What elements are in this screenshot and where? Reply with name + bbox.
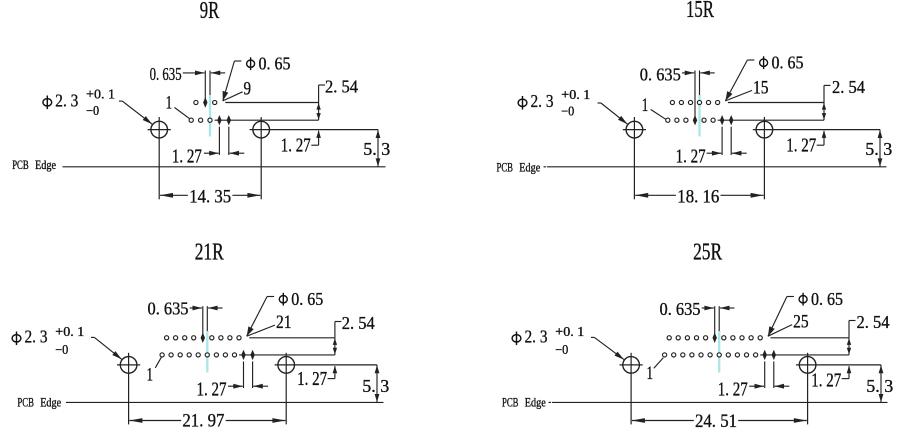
- top pin row line 21R: [249, 337, 335, 339]
- svg-text:−0: −0: [86, 103, 99, 118]
- svg-text:+0. 1: +0. 1: [561, 87, 590, 102]
- svg-text:1. 27: 1. 27: [676, 146, 706, 167]
- svg-text:3: 3: [380, 376, 389, 396]
- svg-text:9R: 9R: [200, 0, 220, 24]
- svg-text:15: 15: [753, 77, 769, 98]
- svg-text:1. 27: 1. 27: [281, 136, 311, 157]
- svg-text:2. 54: 2. 54: [325, 77, 358, 97]
- svg-text:0. 635: 0. 635: [148, 299, 189, 319]
- centerline (cyan) 25R: [718, 331, 720, 373]
- svg-text:2. 3: 2. 3: [55, 91, 78, 111]
- svg-text:+0. 1: +0. 1: [555, 324, 584, 339]
- svg-text:PCB: PCB: [12, 158, 29, 172]
- pin hole diamonds bottom row 25R: [763, 350, 767, 360]
- svg-text:−0: −0: [55, 342, 68, 357]
- svg-text:1. 27: 1. 27: [297, 369, 327, 390]
- svg-text:5.: 5.: [362, 376, 376, 396]
- label phi2.3 +0.1/-0 with leader 9R: [43, 99, 52, 106]
- mounting hole left 21R: [120, 357, 137, 374]
- mounting hole right 9R: [253, 121, 270, 138]
- svg-text:21: 21: [276, 312, 292, 333]
- pin holes bottom row 9R: [189, 118, 193, 122]
- dimension 5.3 9R: [377, 130, 379, 167]
- svg-text:25: 25: [793, 312, 809, 333]
- mounting hole left 9R: [151, 121, 168, 138]
- svg-text:2. 54: 2. 54: [857, 312, 890, 332]
- svg-text:2. 3: 2. 3: [25, 327, 48, 347]
- svg-text:−0: −0: [555, 342, 568, 357]
- svg-text:21. 97: 21. 97: [182, 411, 224, 432]
- pin holes top row 25R: [667, 336, 671, 340]
- pin hole diamonds bottom row 21R: [241, 350, 245, 360]
- label phi0.65 with leader 25R: [799, 296, 807, 303]
- bottom pin row line 15R: [718, 119, 824, 121]
- label phi2.3 +0.1/-0 with leader 21R: [12, 335, 21, 342]
- svg-text:3: 3: [884, 376, 893, 396]
- svg-text:5.: 5.: [866, 376, 880, 396]
- svg-text:−0: −0: [561, 104, 574, 119]
- mounting hole left 25R: [623, 357, 640, 374]
- svg-text:25R: 25R: [693, 239, 722, 265]
- mounting hole right 25R: [799, 357, 816, 374]
- svg-text:2. 54: 2. 54: [342, 313, 375, 333]
- svg-text:PCB: PCB: [17, 396, 34, 410]
- top pin row line 9R: [225, 102, 318, 104]
- centerline (cyan) 21R: [206, 331, 208, 373]
- svg-text:2. 3: 2. 3: [531, 91, 554, 111]
- svg-text:0. 635: 0. 635: [660, 299, 701, 319]
- pin holes top row 21R: [165, 336, 169, 340]
- dimension 5.3 25R: [880, 365, 882, 403]
- svg-text:5.: 5.: [363, 139, 377, 159]
- pin hole diamonds bottom row 9R: [217, 115, 221, 125]
- dimension 5.3 21R: [376, 365, 378, 403]
- svg-text:2. 3: 2. 3: [525, 327, 548, 347]
- pin hole diamonds bottom row 15R: [720, 115, 724, 125]
- pin holes top row 15R: [670, 100, 674, 104]
- label phi0.65 with leader 15R: [760, 59, 768, 66]
- bottom pin row line 25R: [760, 354, 849, 356]
- bottom pin row line 21R: [239, 354, 335, 356]
- dimension 5.3 15R: [879, 130, 881, 167]
- top pin row line 15R: [728, 102, 824, 104]
- svg-text:1. 27: 1. 27: [172, 146, 202, 167]
- svg-text:1: 1: [147, 364, 154, 385]
- top pin row line 25R: [771, 337, 850, 339]
- svg-text:1. 27: 1. 27: [811, 371, 841, 392]
- pin holes bottom row 21R: [160, 353, 164, 357]
- svg-text:Edge: Edge: [40, 396, 61, 410]
- centerline (cyan) 15R: [698, 95, 700, 137]
- label phi0.65 with leader 9R: [247, 60, 255, 67]
- svg-text:14. 35: 14. 35: [189, 187, 231, 208]
- svg-text:Edge: Edge: [519, 161, 540, 175]
- svg-text:+0. 1: +0. 1: [55, 324, 84, 339]
- pin holes bottom row 15R: [666, 118, 670, 122]
- svg-text:5.: 5.: [865, 139, 879, 159]
- svg-text:0. 635: 0. 635: [640, 64, 681, 84]
- pin holes bottom row 25R: [663, 353, 667, 357]
- svg-text:1. 27: 1. 27: [197, 379, 227, 400]
- label phi2.3 +0.1/-0 with leader 15R: [518, 99, 527, 106]
- svg-text:0. 635: 0. 635: [150, 64, 182, 84]
- svg-text:15R: 15R: [686, 0, 714, 23]
- label phi0.65 with leader 21R: [279, 296, 287, 303]
- svg-text:18. 16: 18. 16: [677, 187, 719, 208]
- svg-text:0. 65: 0. 65: [811, 289, 843, 309]
- svg-text:1: 1: [646, 363, 653, 384]
- svg-text:Edge: Edge: [35, 158, 56, 172]
- svg-text:PCB: PCB: [497, 161, 514, 175]
- svg-text:1: 1: [642, 95, 649, 116]
- svg-text:+0. 1: +0. 1: [86, 87, 115, 102]
- centerline (cyan) 9R: [209, 95, 211, 137]
- mounting hole right 21R: [278, 357, 295, 374]
- svg-text:3: 3: [883, 139, 892, 159]
- svg-text:Edge: Edge: [525, 395, 546, 409]
- mounting hole left 15R: [626, 121, 643, 138]
- svg-text:21R: 21R: [195, 239, 224, 265]
- svg-text:9: 9: [244, 79, 252, 100]
- svg-text:1. 27: 1. 27: [786, 135, 816, 156]
- bottom pin row line 9R: [215, 119, 319, 121]
- svg-text:24. 51: 24. 51: [695, 411, 737, 432]
- svg-text:1: 1: [166, 93, 173, 114]
- label phi2.3 +0.1/-0 with leader 25R: [512, 335, 521, 342]
- svg-text:PCB: PCB: [502, 395, 519, 409]
- svg-text:3: 3: [381, 139, 390, 159]
- svg-text:0. 65: 0. 65: [772, 53, 804, 73]
- mounting hole right 15R: [756, 121, 773, 138]
- svg-text:0. 65: 0. 65: [259, 54, 291, 74]
- pin holes top row 9R: [194, 100, 198, 104]
- svg-text:2. 54: 2. 54: [832, 77, 865, 97]
- svg-text:1. 27: 1. 27: [718, 379, 748, 400]
- svg-text:0. 65: 0. 65: [291, 289, 323, 309]
